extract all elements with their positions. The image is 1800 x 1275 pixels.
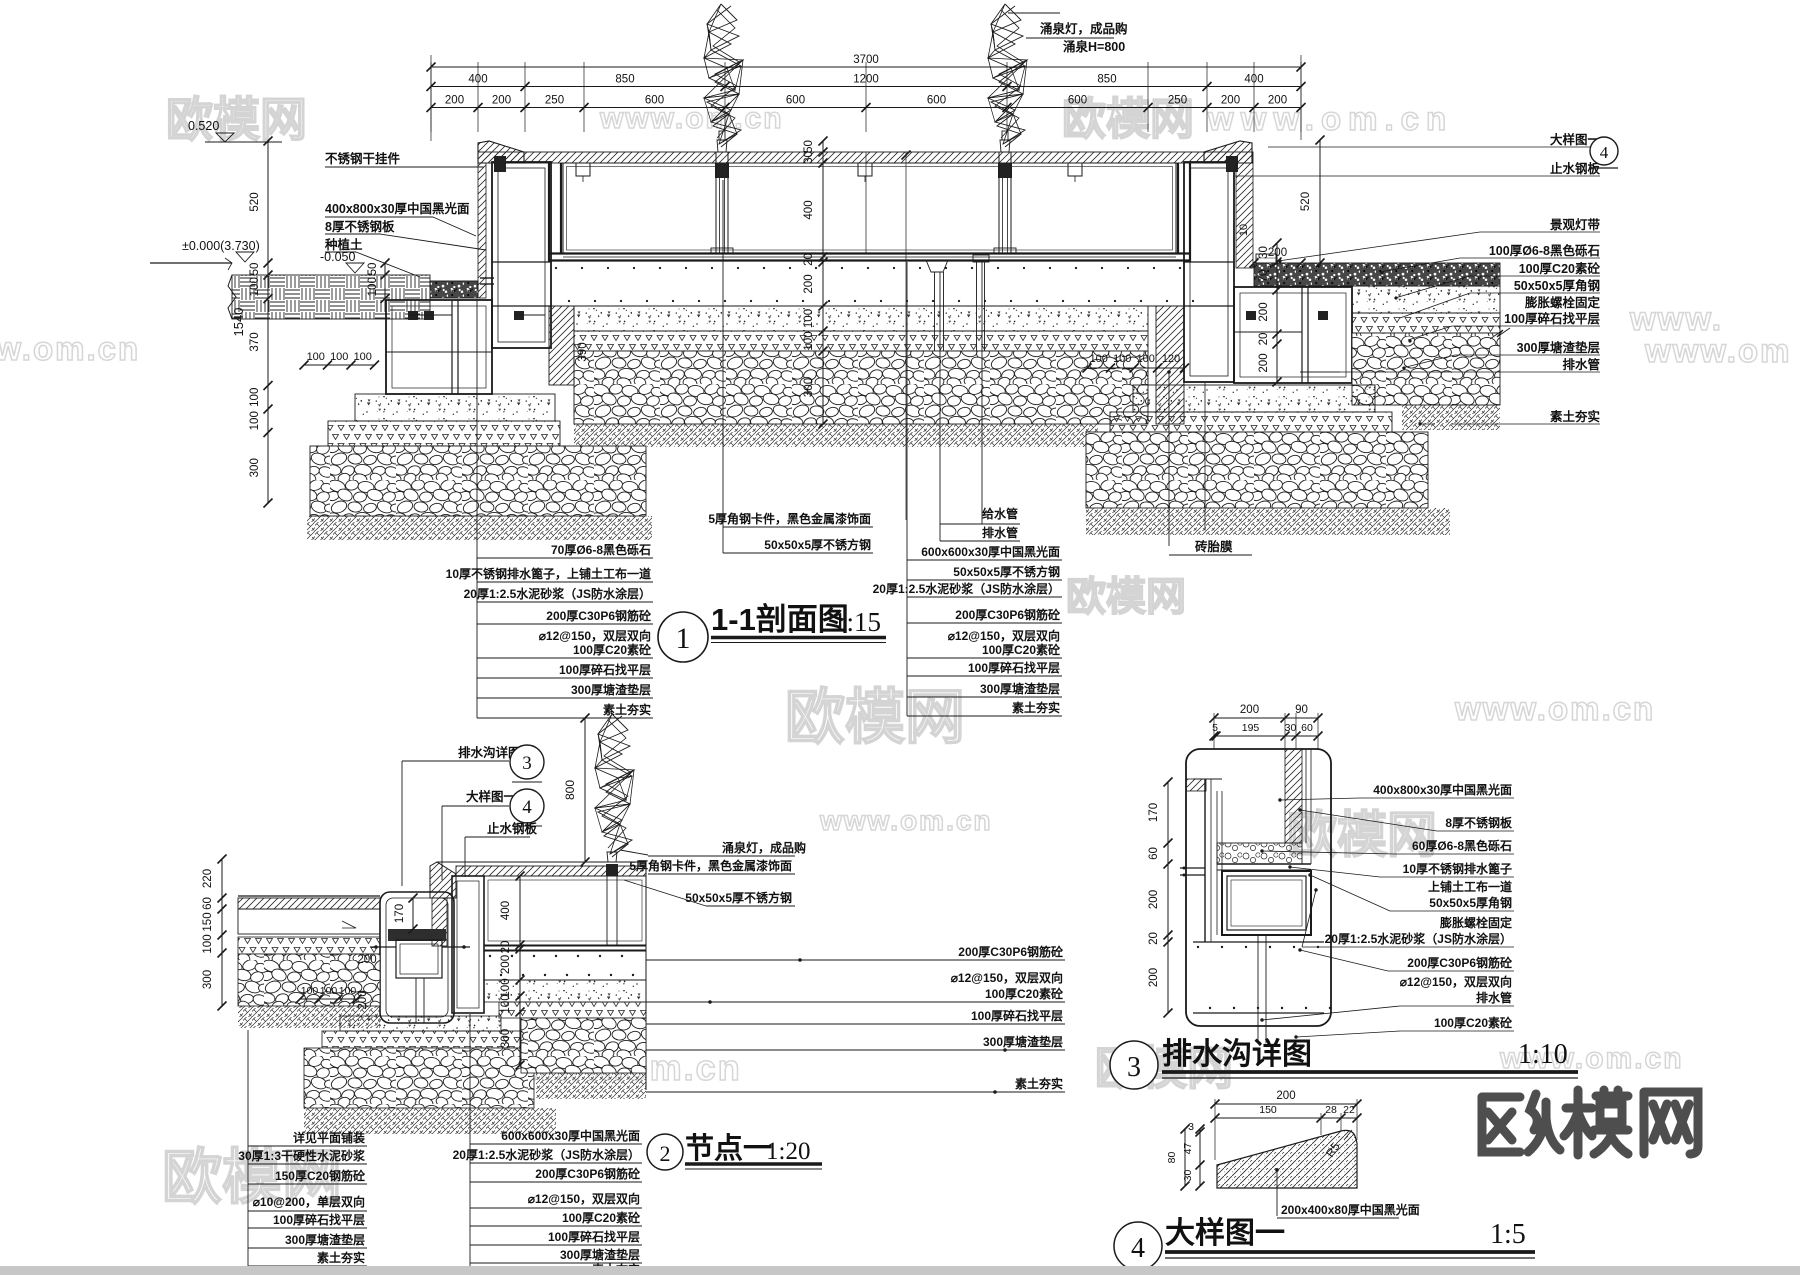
svg-text:100厚C20素砼: 100厚C20素砼 [562, 1210, 641, 1225]
svg-text:8厚不锈钢板: 8厚不锈钢板 [1445, 815, 1513, 830]
svg-text:80: 80 [1166, 1152, 1178, 1164]
label fountain lamp [1008, 13, 1128, 54]
svg-text:www.: www. [1629, 300, 1723, 337]
svg-text:⌀12@150，双层双向: ⌀12@150，双层双向 [539, 628, 651, 643]
detail2 drain box [370, 892, 470, 1023]
left pier hatched [549, 306, 574, 385]
svg-text:200厚C30P6钢筋砼: 200厚C30P6钢筋砼 [958, 944, 1064, 959]
svg-text:370: 370 [249, 332, 261, 351]
svg-text:195: 195 [1242, 722, 1260, 734]
landscape light strip [1256, 254, 1276, 263]
steel clamp bracket 1 [576, 163, 590, 182]
svg-text:200: 200 [1276, 1090, 1295, 1102]
svg-text:膨胀螺栓固定: 膨胀螺栓固定 [1439, 915, 1512, 930]
svg-text:20厚1:2.5水泥砂浆（JS防水涂层）: 20厚1:2.5水泥砂浆（JS防水涂层） [1325, 931, 1512, 946]
svg-text:50x50x5厚不锈方钢: 50x50x5厚不锈方钢 [764, 537, 871, 552]
svg-text:300: 300 [500, 1029, 512, 1048]
svg-text:200: 200 [1258, 302, 1270, 321]
watermark om logo center [785, 684, 965, 751]
svg-text:20厚1:2.5水泥砂浆（JS防水涂层）: 20厚1:2.5水泥砂浆（JS防水涂层） [453, 1147, 640, 1162]
detail2 pool corner [430, 852, 646, 1090]
pool coping left [478, 141, 524, 163]
svg-text:150: 150 [1259, 1104, 1277, 1116]
detail4 stone wedge [1217, 1130, 1357, 1188]
svg-text:排水管: 排水管 [1476, 990, 1512, 1005]
svg-text:100厚碎石找平层: 100厚碎石找平层 [273, 1212, 365, 1227]
svg-text:300厚塘渣垫层: 300厚塘渣垫层 [560, 1247, 640, 1262]
svg-text:200x400x80厚中国黑光面: 200x400x80厚中国黑光面 [1281, 1202, 1420, 1217]
svg-text:1-1剖面图: 1-1剖面图 [711, 602, 849, 637]
pool coping right [1204, 141, 1252, 163]
left step concrete pad [355, 394, 555, 421]
svg-text:200: 200 [803, 274, 815, 293]
svg-text:600x600x30厚中国黑光面: 600x600x30厚中国黑光面 [501, 1128, 640, 1143]
svg-text:90: 90 [1295, 704, 1308, 716]
svg-text:www.om.cn: www.om.cn [0, 330, 140, 367]
svg-text:景观灯带: 景观灯带 [1550, 217, 1601, 232]
watermark url left-edge [0, 330, 140, 367]
svg-text:100: 100 [803, 331, 815, 350]
svg-text:5厚角钢卡件，黑色金属漆饰面: 5厚角钢卡件，黑色金属漆饰面 [629, 858, 792, 873]
title detail2 [647, 1132, 822, 1170]
svg-text:100厚C20素砼: 100厚C20素砼 [573, 642, 652, 657]
watermark om logo top-left [166, 93, 307, 146]
svg-text:涌泉灯，成品购: 涌泉灯，成品购 [722, 840, 806, 855]
svg-text:给水管: 给水管 [982, 506, 1018, 521]
svg-text:50x50x5厚角钢: 50x50x5厚角钢 [1514, 278, 1600, 293]
level markers [182, 119, 364, 273]
watermark om logo detail3 [1287, 807, 1437, 863]
svg-text:100厚C20素砼: 100厚C20素砼 [985, 986, 1064, 1001]
svg-text:⌀12@150，双层双向: ⌀12@150，双层双向 [528, 1191, 640, 1206]
dimension 520 right [1250, 136, 1325, 268]
svg-text:10厚不锈钢排水篦子，上铺土工布一道: 10厚不锈钢排水篦子，上铺土工布一道 [446, 566, 651, 581]
svg-text:大样图一: 大样图一 [1165, 1217, 1285, 1250]
left step rubble layer [310, 446, 646, 516]
svg-text:50x50x5厚不锈方钢: 50x50x5厚不锈方钢 [953, 564, 1060, 579]
svg-text:20厚1:2.5水泥砂浆（JS防水涂层）: 20厚1:2.5水泥砂浆（JS防水涂层） [873, 581, 1060, 596]
svg-text:20: 20 [803, 253, 815, 266]
svg-text:素土夯实: 素土夯实 [603, 702, 651, 717]
svg-text:www.om: www.om [1644, 332, 1791, 369]
title detail4 [1114, 1217, 1535, 1270]
svg-text:200厚C30P6钢筋砼: 200厚C30P6钢筋砼 [1407, 955, 1513, 970]
svg-text:⌀10@200，单层双向: ⌀10@200，单层双向 [253, 1194, 365, 1209]
svg-text:1:15: 1:15 [833, 607, 881, 637]
svg-text:60: 60 [1148, 847, 1160, 860]
detail4 label [1275, 1168, 1420, 1218]
svg-text:4: 4 [522, 797, 532, 818]
svg-text:100: 100 [1090, 353, 1108, 365]
right plaza rammed soil [1402, 405, 1500, 430]
watermark url right-edge [1644, 332, 1791, 369]
svg-text:100: 100 [320, 985, 338, 997]
svg-text:600: 600 [786, 95, 805, 107]
labels upper left [324, 151, 486, 277]
svg-text:850: 850 [615, 74, 634, 86]
svg-text:排水沟详图: 排水沟详图 [1162, 1038, 1312, 1071]
detail2 label stack left [238, 1030, 367, 1266]
watermark om logo mid-center [1066, 575, 1186, 619]
svg-text:100厚Ø6-8黑色砾石: 100厚Ø6-8黑色砾石 [1489, 243, 1600, 258]
svg-text:60: 60 [1301, 722, 1313, 734]
label stack bottom-center [873, 262, 1062, 716]
svg-text:100: 100 [803, 309, 815, 328]
svg-text:30: 30 [1258, 246, 1270, 259]
svg-text:60厚Ø6-8黑色砾石: 60厚Ø6-8黑色砾石 [1412, 838, 1512, 853]
detail3 top dims [1210, 704, 1323, 749]
svg-text:10厚不锈钢排水篦子: 10厚不锈钢排水篦子 [1403, 861, 1512, 876]
svg-text:10: 10 [1238, 224, 1250, 236]
svg-text:150: 150 [202, 912, 214, 931]
svg-text:300厚塘渣垫层: 300厚塘渣垫层 [571, 682, 651, 697]
right step concrete pad [1133, 385, 1375, 412]
right pit box [1234, 287, 1352, 383]
left step crushed stone [328, 421, 560, 446]
svg-text:膨胀螺栓固定: 膨胀螺栓固定 [1524, 295, 1601, 310]
svg-text:2: 2 [660, 1141, 671, 1166]
svg-text:200: 200 [1240, 704, 1259, 716]
label stack bottom-left [446, 300, 653, 718]
svg-text:250: 250 [1168, 95, 1187, 107]
svg-text:素土夯实: 素土夯实 [317, 1250, 365, 1265]
svg-text:250: 250 [545, 95, 564, 107]
central crushed stone layer [574, 331, 1148, 351]
watermark om logo top-right [1062, 95, 1194, 144]
svg-text:砖胎膜: 砖胎膜 [1195, 539, 1233, 554]
svg-text:600x600x30厚中国黑光面: 600x600x30厚中国黑光面 [921, 544, 1060, 559]
svg-text:300: 300 [202, 970, 214, 989]
svg-text:100厚碎石找平层: 100厚碎石找平层 [971, 1008, 1063, 1023]
detail2 lamp labels [620, 840, 806, 906]
svg-text:30厚1:3干硬性水泥砂浆: 30厚1:3干硬性水泥砂浆 [238, 1148, 366, 1163]
svg-text:200厚C30P6钢筋砼: 200厚C30P6钢筋砼 [535, 1166, 641, 1181]
steel clamp bracket 2 [858, 163, 872, 182]
svg-text:大样图一: 大样图一 [466, 789, 517, 804]
left pit box [386, 300, 545, 394]
svg-text:20: 20 [500, 941, 512, 954]
svg-text:520: 520 [1300, 192, 1312, 211]
detail3 left dims [1148, 778, 1173, 1018]
dimension chain top [427, 54, 1306, 141]
svg-text:4: 4 [1600, 143, 1609, 162]
svg-text:28: 28 [1325, 1104, 1337, 1116]
svg-text:100: 100 [249, 411, 261, 430]
svg-text:0.520: 0.520 [188, 119, 219, 133]
svg-text:3: 3 [522, 753, 532, 774]
svg-text:100: 100 [354, 351, 372, 363]
svg-text:www.om.cn: www.om.cn [1454, 690, 1655, 727]
svg-text:600: 600 [1068, 95, 1087, 107]
svg-text:50: 50 [249, 263, 261, 276]
title section 1-1 [658, 602, 886, 662]
svg-text:100厚C20素砼: 100厚C20素砼 [982, 642, 1061, 657]
left drain channel [478, 156, 551, 348]
svg-text:100: 100 [330, 351, 348, 363]
svg-text:200: 200 [357, 954, 376, 966]
svg-text:400x800x30厚中国黑光面: 400x800x30厚中国黑光面 [325, 201, 470, 216]
fountain jet sculpture left [704, 4, 743, 147]
pool joint line [865, 152, 867, 253]
svg-text:100: 100 [301, 985, 319, 997]
svg-text:⌀12@150，双层双向: ⌀12@150，双层双向 [1400, 974, 1512, 989]
right step crushed stone [1110, 412, 1392, 432]
svg-text:220: 220 [202, 869, 214, 888]
footer gray bar [0, 1266, 1800, 1275]
svg-text:30: 30 [1182, 1170, 1194, 1182]
svg-text:150厚C20钢筋砼: 150厚C20钢筋砼 [275, 1168, 366, 1183]
detail2 label stack right [453, 1014, 642, 1275]
svg-text:300: 300 [803, 378, 815, 397]
svg-text:300厚塘渣垫层: 300厚塘渣垫层 [983, 1034, 1063, 1049]
svg-text:⌀12@150，双层双向: ⌀12@150，双层双向 [948, 628, 1060, 643]
central rubble layer [574, 351, 1148, 424]
svg-text:欧模网: 欧模网 [785, 684, 965, 751]
right plaza concrete pad [1352, 286, 1500, 313]
svg-text:100厚C20素砼: 100厚C20素砼 [1519, 261, 1601, 276]
right step rammed soil [1086, 508, 1450, 535]
detail3 leader labels [1260, 782, 1514, 1039]
title detail3 [1110, 1038, 1578, 1089]
svg-text:200: 200 [357, 990, 369, 1009]
svg-text:200: 200 [1148, 968, 1160, 987]
svg-text:400: 400 [803, 200, 815, 219]
svg-text:850: 850 [1097, 74, 1116, 86]
detail2 right leader labels [646, 944, 1065, 1094]
watermark om logo detail3-title [1095, 1042, 1233, 1094]
svg-text:1:20: 1:20 [766, 1138, 810, 1165]
svg-text:170: 170 [394, 904, 406, 923]
watermark url detail3-bottom [1499, 1042, 1684, 1075]
water supply and drain pipes [926, 255, 989, 420]
svg-text:200: 200 [445, 95, 464, 107]
gravel strip left drain [430, 281, 478, 298]
central rammed soil [574, 424, 1098, 447]
right step rubble layer [1086, 432, 1428, 508]
svg-text:200厚C30P6钢筋砼: 200厚C30P6钢筋砼 [546, 608, 652, 623]
svg-text:100: 100 [1113, 353, 1131, 365]
detail3 drain box [1180, 749, 1331, 1043]
svg-text:欧模网: 欧模网 [1066, 575, 1186, 619]
svg-text:素土夯实: 素土夯实 [1550, 409, 1600, 424]
svg-text:800: 800 [563, 780, 577, 800]
svg-text:50x50x5厚不锈方钢: 50x50x5厚不锈方钢 [685, 890, 792, 905]
svg-text:8厚不锈钢板: 8厚不锈钢板 [325, 219, 395, 234]
detail2 dim 800 [563, 714, 590, 867]
svg-text:30: 30 [1285, 722, 1297, 734]
svg-text:详见平面铺装: 详见平面铺装 [293, 1130, 365, 1145]
detail4 dims [1166, 1090, 1362, 1191]
right wall cladding [1236, 163, 1253, 268]
svg-text:20厚1:2.5水泥砂浆（JS防水涂层）: 20厚1:2.5水泥砂浆（JS防水涂层） [464, 586, 651, 601]
svg-text:100厚C20素砼: 100厚C20素砼 [1434, 1015, 1513, 1030]
watermark url center-right [1454, 690, 1655, 727]
svg-text:100: 100 [339, 985, 357, 997]
watermark url top-center [599, 102, 784, 135]
detail2 dimension chains [202, 855, 525, 1070]
svg-text:素土夯实: 素土夯实 [1012, 700, 1060, 715]
watermark url detail2-right [1629, 300, 1723, 337]
right drain channel [1184, 156, 1238, 382]
watermark url top-right [1207, 100, 1453, 137]
svg-text:200: 200 [1258, 353, 1270, 372]
svg-text:涌泉灯，成品购: 涌泉灯，成品购 [1040, 21, 1128, 36]
svg-text:www.om.cn: www.om.cn [599, 102, 784, 135]
right plaza rubble layer [1352, 333, 1500, 405]
svg-text:200: 200 [1148, 890, 1160, 909]
label stack angle steel clamp [708, 180, 873, 553]
svg-text:600: 600 [645, 95, 664, 107]
svg-text:节点一: 节点一 [685, 1132, 772, 1165]
break mark right [1490, 328, 1510, 339]
pool cap slab hatched [478, 152, 1253, 163]
labels right column [1235, 132, 1618, 426]
watermark om logo bottom-left [162, 1144, 342, 1211]
svg-text:100: 100 [202, 934, 214, 953]
svg-text:400x800x30厚中国黑光面: 400x800x30厚中国黑光面 [1373, 782, 1512, 797]
svg-text:100: 100 [1137, 353, 1155, 365]
planting soil bed [228, 275, 430, 319]
svg-text:⌀12@150，双层双向: ⌀12@150，双层双向 [951, 970, 1063, 985]
svg-text:100厚碎石找平层: 100厚碎石找平层 [559, 662, 651, 677]
fountain pipe assembly right [994, 131, 1016, 253]
svg-text:300厚塘渣垫层: 300厚塘渣垫层 [285, 1232, 365, 1247]
svg-text:3: 3 [1188, 1121, 1194, 1133]
svg-text:70: 70 [1258, 270, 1270, 283]
right plaza gravel layer [1254, 263, 1500, 286]
svg-text:400: 400 [500, 901, 512, 920]
dimension chain left [231, 137, 390, 508]
right plaza crushed stone [1352, 313, 1500, 333]
svg-text:50: 50 [367, 263, 379, 276]
dimension chain pool center [803, 137, 828, 429]
svg-text:排水管: 排水管 [1562, 357, 1600, 372]
svg-text:22: 22 [1343, 1104, 1355, 1116]
svg-text:素土夯实: 素土夯实 [1015, 1076, 1063, 1091]
svg-text:60: 60 [202, 897, 214, 910]
svg-text:47: 47 [1182, 1143, 1194, 1155]
dimension 100x3+120 right [1083, 353, 1190, 373]
pool bottom slab rebar [549, 267, 1194, 306]
svg-text:www.om.cn: www.om.cn [819, 805, 993, 836]
detail2 foundation steps [304, 980, 646, 1134]
dimension 100x3 left [300, 351, 380, 370]
svg-text:200: 200 [1221, 95, 1240, 107]
svg-text:300厚塘渣垫层: 300厚塘渣垫层 [980, 681, 1060, 696]
detail2 fountain sculpture [595, 714, 634, 857]
svg-text:20: 20 [1258, 333, 1270, 346]
steel clamp bracket 3 [1068, 163, 1082, 182]
svg-text:30: 30 [803, 151, 815, 164]
svg-text:5: 5 [1212, 722, 1218, 734]
svg-text:100厚碎石找平层: 100厚碎石找平层 [1504, 311, 1600, 326]
svg-text:±0.000(3.730): ±0.000(3.730) [182, 239, 260, 253]
svg-text:100厚碎石找平层: 100厚碎石找平层 [968, 660, 1060, 675]
svg-text:上铺土工布一道: 上铺土工布一道 [1428, 879, 1512, 894]
svg-text:200厚C30P6钢筋砼: 200厚C30P6钢筋砼 [955, 607, 1061, 622]
left step rammed soil [307, 516, 652, 540]
dimension 390 left [577, 342, 589, 361]
svg-text:1:10: 1:10 [1518, 1039, 1568, 1070]
svg-text:70厚Ø6-8黑色砾石: 70厚Ø6-8黑色砾石 [551, 542, 651, 557]
svg-text:排水管: 排水管 [982, 525, 1018, 540]
svg-text:200: 200 [492, 95, 511, 107]
ground line left [150, 258, 232, 270]
svg-text:100: 100 [307, 351, 325, 363]
svg-text:600: 600 [927, 95, 946, 107]
svg-text:170: 170 [1148, 803, 1160, 822]
watermark url mid-center [819, 805, 993, 836]
svg-text:不锈钢干挂件: 不锈钢干挂件 [325, 151, 401, 166]
svg-text:1:5: 1:5 [1490, 1219, 1526, 1250]
svg-text:欧模网: 欧模网 [1287, 807, 1437, 863]
watermark url bottom-center [524, 1047, 742, 1088]
svg-text:200: 200 [1268, 95, 1287, 107]
svg-text:www.om.cn: www.om.cn [1207, 100, 1453, 137]
svg-text:100厚碎石找平层: 100厚碎石找平层 [548, 1229, 640, 1244]
svg-text:300厚塘渣垫层: 300厚塘渣垫层 [1517, 340, 1601, 355]
svg-text:520: 520 [249, 192, 261, 211]
fountain jet sculpture right [988, 4, 1027, 147]
svg-text:50: 50 [803, 140, 815, 153]
svg-text:4: 4 [1131, 1233, 1145, 1264]
detail2 reference bubbles [402, 745, 544, 886]
label brick formwork [1167, 370, 1252, 555]
svg-text:200: 200 [500, 955, 512, 974]
label stack pipes [940, 262, 1020, 541]
watermark big logo bottom-right [1482, 1090, 1698, 1155]
detail2 left pavement layers [238, 896, 380, 1028]
svg-text:涌泉H=800: 涌泉H=800 [1063, 39, 1125, 54]
svg-text:100: 100 [249, 388, 261, 407]
svg-text:5厚角钢卡件，黑色金属漆饰面: 5厚角钢卡件，黑色金属漆饰面 [708, 511, 871, 526]
svg-text:种植土: 种植土 [324, 237, 363, 252]
fountain pipe assembly left [711, 131, 733, 253]
svg-text:120: 120 [1162, 353, 1180, 365]
pool basin walls and floor [549, 163, 1190, 262]
right pier hatched [1156, 306, 1184, 424]
central concrete pad [574, 306, 1148, 331]
vertical reference line center [902, 151, 911, 521]
svg-text:1: 1 [676, 622, 691, 655]
svg-text:50x50x5厚角钢: 50x50x5厚角钢 [1429, 895, 1512, 910]
svg-text:止水钢板: 止水钢板 [487, 821, 538, 836]
svg-text:3: 3 [1127, 1052, 1141, 1083]
svg-text:390: 390 [577, 342, 589, 361]
dimension chain right channel [1238, 224, 1282, 387]
svg-text:100: 100 [500, 994, 512, 1013]
svg-text:20: 20 [1148, 932, 1160, 945]
svg-text:300: 300 [249, 458, 261, 477]
